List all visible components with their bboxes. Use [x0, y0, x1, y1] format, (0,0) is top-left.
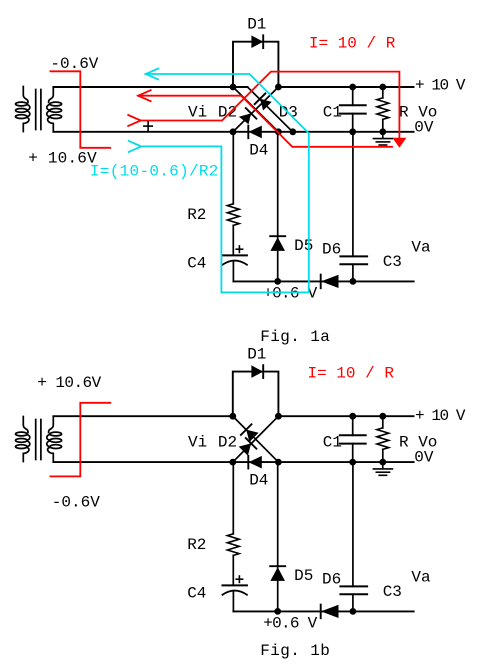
diode D1	[251, 35, 263, 48]
svg-text:I= 10 / R: I= 10 / R	[308, 365, 395, 383]
capacitor C4 (polarized)	[223, 255, 247, 281]
diode D1 (fig 1b)	[251, 365, 263, 378]
svg-text:D2: D2	[218, 434, 237, 452]
svg-text:+0.6 V: +0.6 V	[263, 614, 317, 632]
wire: bridge diagonal TR-BL	[233, 87, 278, 132]
capacitor C3	[340, 256, 367, 264]
svg-text:C1: C1	[323, 434, 342, 452]
red input square-wave marker (fig 1b)	[50, 403, 110, 477]
diode D5 (pointing up)	[270, 236, 285, 251]
svg-text:0V: 0V	[414, 449, 434, 467]
svg-text:Vi: Vi	[188, 104, 207, 122]
svg-text:-0.6V: -0.6V	[52, 494, 100, 512]
svg-text:C4: C4	[187, 254, 206, 272]
svg-text:R2: R2	[187, 206, 206, 224]
svg-text:D1: D1	[247, 345, 266, 363]
transformer T1 secondary coil	[47, 87, 62, 132]
diode D6 (on bottom wire, pointing left, fig 1b)	[321, 605, 339, 619]
wire: top rail right segment	[278, 86, 413, 88]
junction dots bottom wire	[274, 278, 356, 285]
junction dots top rail	[230, 84, 387, 91]
svg-text:R2: R2	[187, 536, 206, 554]
svg-text:+ 10.6V: + 10.6V	[28, 149, 97, 167]
svg-text:C1: C1	[323, 104, 342, 122]
resistor R2 (fig 1b)	[227, 534, 239, 556]
diode D3 (upper, on offset diagonal, pointing up-left)	[255, 94, 272, 111]
junction dots top rail (fig 1b)	[229, 413, 386, 420]
wire: C1 branch	[352, 87, 354, 105]
svg-text:+ 10 V: + 10 V	[415, 77, 466, 95]
svg-text:I= 10 / R: I= 10 / R	[309, 35, 396, 53]
wire: C1 branch (fig 1b)	[352, 416, 354, 435]
transformer T2 primary coil	[15, 417, 29, 462]
svg-text:D2: D2	[218, 104, 237, 122]
red current path (lower, with right arrow)	[128, 72, 399, 139]
svg-text:I=(10-0.6)/R2: I=(10-0.6)/R2	[90, 162, 219, 180]
wire: D1 branch	[233, 42, 278, 87]
diode D4 (on bottom rail, pointing left)	[248, 126, 261, 139]
junction dots bottom rail (fig 1b)	[229, 459, 386, 466]
capacitor C1 (fig 1b)	[340, 435, 366, 443]
wire: bottom wire (+0.6V node)	[233, 280, 413, 282]
capacitor C1	[340, 105, 366, 113]
resistor R2	[227, 204, 239, 226]
svg-text:+ 10 V: + 10 V	[415, 407, 466, 425]
capacitor C3 (fig 1b)	[340, 586, 367, 594]
wire: top rail left segment	[53, 86, 247, 88]
plus mark of C4	[236, 246, 242, 252]
svg-text:Fig. 1a: Fig. 1a	[260, 328, 330, 346]
svg-text:D6: D6	[322, 240, 341, 258]
wire: D5 branch vertical (fig 1b)	[277, 462, 279, 611]
red current path (upper, with left arrow)	[138, 90, 392, 147]
diode D2 (lower, on TR-BL diagonal, pointing up-right)	[239, 108, 257, 124]
wire: R2 branch vertical	[232, 132, 234, 204]
wire: top rail left segment (fig 1b)	[53, 415, 232, 417]
ground symbol	[373, 132, 392, 145]
wire: diagonal from top rail into bridge (to node at 293,131.8)	[248, 87, 293, 132]
wire: top rail right segment (fig 1b)	[278, 415, 413, 417]
black plus mark near red arrow	[144, 122, 152, 130]
cyan current loop	[129, 69, 309, 293]
svg-text:Fig. 1b: Fig. 1b	[260, 642, 330, 660]
svg-text:Va: Va	[411, 238, 431, 256]
plus mark of C4 (fig 1b)	[236, 576, 242, 582]
wire: C3 branch	[352, 132, 354, 257]
diode D5 (pointing up, fig 1b)	[270, 566, 285, 581]
wire: bottom rail	[53, 131, 413, 133]
diode D4 (on bottom rail, pointing left, fig 1b)	[248, 456, 261, 469]
junction dots bottom rail	[230, 128, 387, 135]
svg-text:Va: Va	[411, 568, 431, 586]
svg-text:-0.6V: -0.6V	[50, 55, 98, 73]
resistor R (output)	[382, 87, 384, 98]
svg-text:D4: D4	[249, 471, 268, 489]
svg-text:+ 10.6V: + 10.6V	[37, 374, 101, 392]
junction dots bottom wire (fig 1b)	[274, 608, 356, 615]
svg-text:D4: D4	[249, 141, 268, 159]
svg-text:C4: C4	[187, 584, 206, 602]
diode D2 (lower, on TR-BL diagonal, pointing up-right, fig 1b)	[239, 438, 257, 456]
svg-text:C3: C3	[383, 583, 402, 601]
wire: R2 branch vertical (fig 1b)	[232, 462, 234, 534]
red input square-wave marker	[50, 71, 110, 148]
svg-text:D1: D1	[247, 15, 266, 33]
svg-text:D6: D6	[322, 570, 341, 588]
wire: bottom rail (fig 1b)	[53, 461, 413, 463]
wire: D1 branch (fig 1b)	[233, 372, 279, 417]
wire: bottom wire (+0.6V node, fig 1b)	[233, 610, 413, 612]
wire: D5 branch vertical	[277, 132, 279, 282]
red arrowhead down	[392, 138, 406, 148]
svg-text:D5: D5	[294, 237, 313, 255]
svg-text:C3: C3	[383, 253, 402, 271]
diode D6 (on bottom wire, pointing left)	[321, 275, 339, 289]
ground symbol (fig 1b)	[373, 462, 392, 475]
wire: C3 branch (fig 1b)	[352, 462, 354, 586]
wire: bridge diagonal TL-BR	[233, 87, 278, 132]
transformer T1 primary coil	[15, 87, 29, 132]
capacitor C4 (polarized, fig 1b)	[223, 585, 247, 611]
transformer T1 core	[36, 90, 41, 130]
resistor R (output, fig 1b)	[382, 416, 384, 428]
svg-text:0V: 0V	[414, 119, 434, 137]
wire: bridge diagonal TR-BL (fig 1b)	[233, 416, 279, 462]
svg-text:Vi: Vi	[188, 434, 207, 452]
transformer T2 secondary coil	[47, 417, 62, 462]
transformer T2 core	[36, 420, 41, 460]
svg-text:D5: D5	[294, 567, 313, 585]
wire: bridge diagonal TL-BR (fig 1b)	[233, 416, 279, 462]
diode D3 (upper, on TL-BR diagonal, pointing up-left, fig 1b)	[241, 424, 259, 442]
